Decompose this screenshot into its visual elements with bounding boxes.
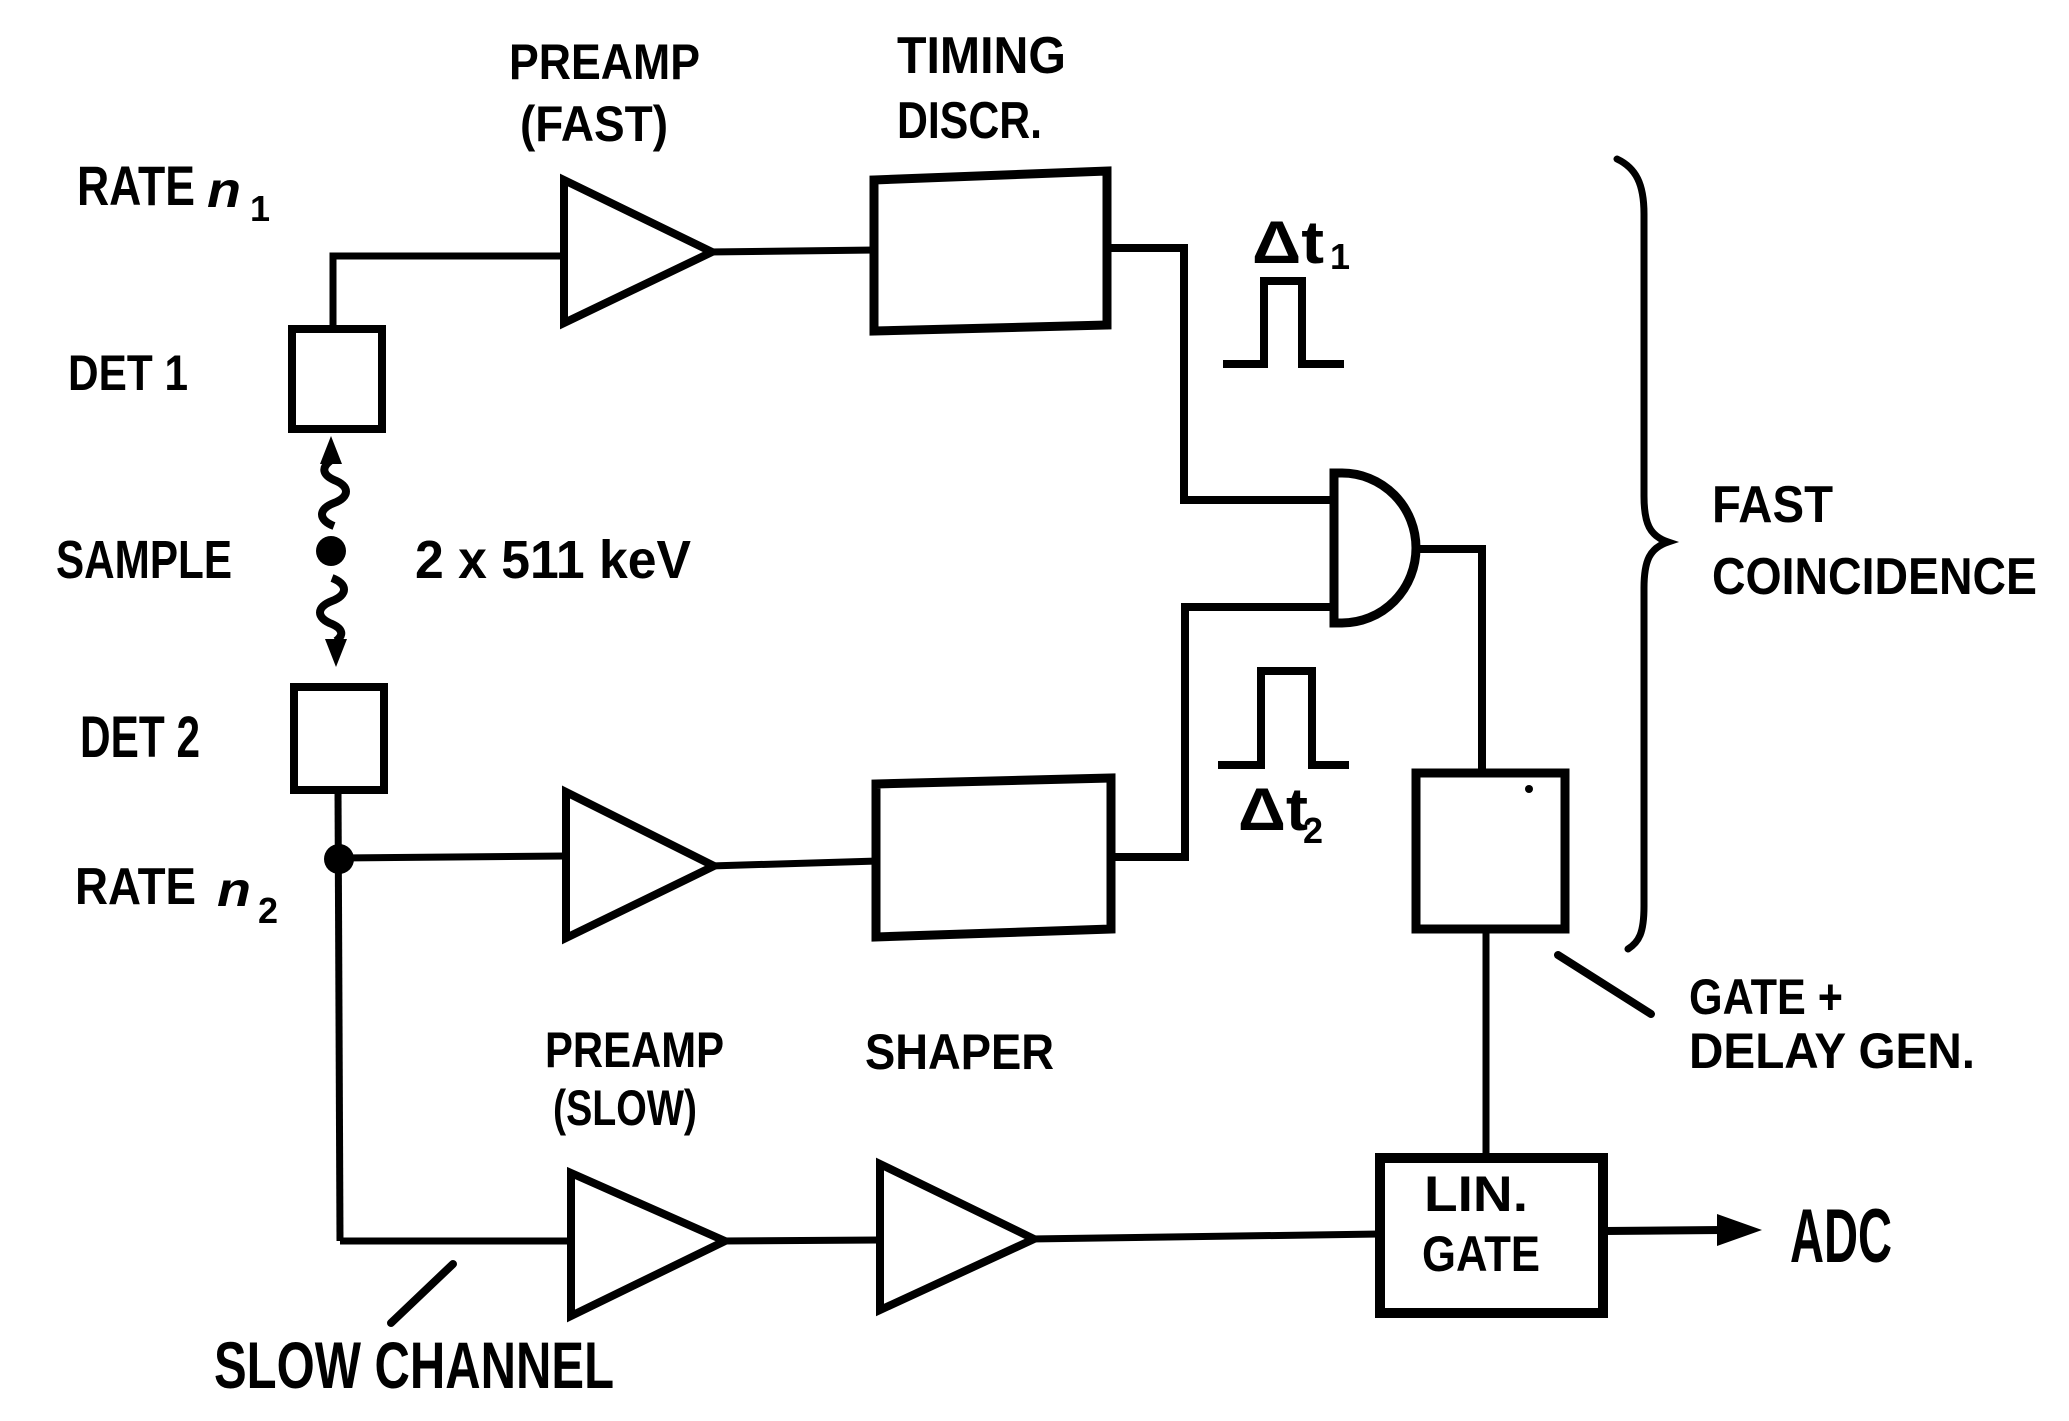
detector DET1 box [292, 329, 382, 429]
brace fast coincidence [1617, 159, 1668, 949]
svg-text:Δt: Δt [1238, 776, 1308, 843]
svg-text:GATE +: GATE + [1689, 969, 1843, 1025]
svg-text:2 x 511 keV: 2 x 511 keV [415, 530, 691, 590]
amplifier preamp fast (lower) [566, 792, 714, 938]
wire: preamp2 output to timing discr 2 [710, 861, 878, 866]
label RATE n2 [75, 858, 278, 931]
wire: gate+delay gen to lin gate [1483, 929, 1490, 1158]
wire: slow channel horizontal from junction to preamp slow [340, 1238, 571, 1245]
wire: AND gate output to gate+delay generator [1414, 549, 1482, 777]
junction node rate n2 [324, 844, 354, 874]
svg-text:n: n [207, 162, 241, 218]
label FAST COINCIDENCE [1712, 476, 2037, 606]
wire: preamp1 output to timing discr 1 [708, 250, 876, 252]
svg-text:DET 2: DET 2 [80, 705, 200, 770]
detector DET2 box [294, 687, 384, 790]
pointer line to gate+delay gen label [1558, 955, 1651, 1014]
svg-text:TIMING: TIMING [897, 27, 1066, 85]
svg-text:DELAY GEN.: DELAY GEN. [1689, 1023, 1975, 1079]
amplifier preamp slow [571, 1173, 725, 1316]
svg-text:RATE: RATE [75, 858, 196, 916]
svg-text:COINCIDENCE: COINCIDENCE [1712, 548, 2037, 606]
label RATE n1 [77, 154, 270, 229]
svg-text:2: 2 [258, 890, 278, 931]
svg-text:GATE: GATE [1422, 1226, 1540, 1282]
svg-text:2: 2 [1303, 810, 1323, 851]
label dt1 [1252, 209, 1350, 277]
svg-text:(SLOW): (SLOW) [553, 1080, 697, 1136]
svg-text:PREAMP: PREAMP [509, 34, 700, 90]
label LIN. GATE [1422, 1166, 1540, 1282]
svg-text:Δt: Δt [1252, 209, 1324, 276]
label dt2 [1238, 776, 1323, 851]
svg-text:PREAMP: PREAMP [545, 1022, 724, 1078]
pulse symbol dt2 [1218, 671, 1349, 765]
svg-text:DET 1: DET 1 [68, 345, 188, 401]
svg-text:ADC: ADC [1790, 1194, 1892, 1279]
amplifier shaper [880, 1164, 1034, 1310]
block timing discriminator 2 [876, 778, 1111, 937]
pointer line to slow channel label [391, 1264, 453, 1323]
sample dot [316, 536, 346, 566]
svg-text:DISCR.: DISCR. [897, 92, 1042, 150]
wire: DET1 top to preamp1 input [333, 256, 564, 329]
svg-text:LIN.: LIN. [1424, 1166, 1528, 1222]
wire: DET2 bottom through junction down to slow channel [338, 790, 340, 1241]
block gate and delay generator [1416, 773, 1565, 929]
svg-text:SHAPER: SHAPER [865, 1024, 1054, 1080]
arrow to ADC [1605, 1214, 1762, 1246]
wire: shaper to lin gate [1030, 1234, 1380, 1239]
svg-text:n: n [217, 864, 251, 917]
svg-text:FAST: FAST [1712, 476, 1833, 534]
svg-text:1: 1 [1330, 236, 1350, 277]
wire: junction to preamp2 input [339, 856, 566, 858]
svg-text:SLOW CHANNEL: SLOW CHANNEL [214, 1328, 614, 1402]
pulse symbol dt1 [1223, 281, 1344, 364]
label GATE + DELAY GEN. [1689, 969, 1975, 1079]
svg-text:RATE: RATE [77, 154, 195, 217]
label PREAMP (SLOW) [545, 1022, 724, 1136]
amplifier preamp fast (upper) [564, 180, 712, 323]
svg-text:(FAST): (FAST) [520, 96, 668, 152]
svg-text:1: 1 [250, 188, 270, 229]
svg-text:SAMPLE: SAMPLE [56, 530, 232, 590]
wire: preamp slow to shaper [721, 1240, 880, 1241]
block timing discriminator 1 [874, 171, 1107, 331]
wire: discr1 output to AND gate upper input [1107, 248, 1334, 500]
speckle [1525, 785, 1533, 793]
wire: discr2 output to AND gate lower input [1111, 607, 1334, 857]
wavy gamma arrow up to DET1 [320, 436, 346, 526]
label TIMING DISCR. [897, 27, 1066, 150]
AND gate fast coincidence [1334, 473, 1416, 623]
block linear gate [1380, 1158, 1603, 1313]
wavy gamma arrow down to DET2 [320, 578, 347, 667]
label PREAMP (FAST) [509, 34, 700, 152]
